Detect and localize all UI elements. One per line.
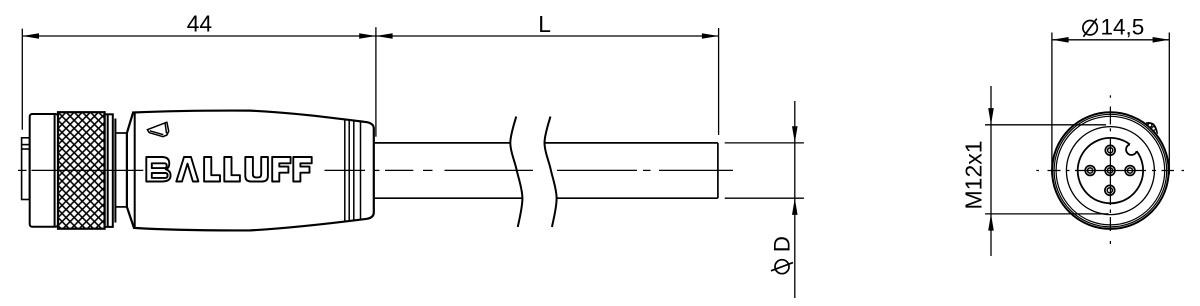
cable break curve 2: [545, 117, 557, 228]
washer line: [114, 119, 116, 223]
svg-text:14,5: 14,5: [1101, 14, 1145, 39]
diameter D extension bottom: [725, 197, 804, 199]
BALLUFF logo: [146, 157, 311, 182]
front view horizontal centerline: [1036, 170, 1184, 172]
label diameter 14,5: [1083, 14, 1144, 39]
body collar seam line: [134, 113, 136, 229]
orientation wedge marker: [147, 122, 168, 137]
body ridge lines: [345, 120, 361, 222]
cable break curve 1: [510, 117, 522, 228]
arrowhead 44 right: [359, 33, 376, 39]
arrowhead D bottom: [792, 198, 798, 215]
front view thread circle: [1066, 127, 1154, 215]
logo letter U: [245, 157, 268, 182]
knurled ring: [58, 112, 105, 229]
arrowhead M12 bottom: [988, 214, 994, 231]
rim bump dot 1: [1148, 123, 1152, 127]
cable bottom edge: [375, 197, 718, 199]
arrowhead L left: [376, 33, 393, 39]
M12x1 dimension line: [990, 86, 992, 256]
front view insert circle with keyway: [1078, 138, 1143, 203]
extension line left of 44: [21, 29, 23, 130]
arrowhead 44 left: [22, 33, 39, 39]
arrowhead 14,5 left: [1052, 37, 1069, 43]
pin 3 bottom: [1105, 185, 1115, 195]
rear ring of nut: [105, 114, 113, 227]
cable top edge: [375, 142, 718, 144]
neck groove: [115, 133, 127, 207]
label diameter D: [769, 236, 794, 274]
svg-text:44: 44: [187, 10, 213, 36]
arrowhead L right: [702, 33, 719, 39]
pin 4 left: [1085, 166, 1095, 176]
dimension line L: [376, 35, 719, 37]
logo letter L 2: [224, 157, 240, 182]
connector body: [127, 111, 374, 231]
extension line 14,5 right: [1168, 33, 1170, 175]
arrowhead D top: [792, 126, 798, 143]
diameter 14,5 dimension line: [1052, 39, 1169, 41]
logo letter B: [146, 157, 170, 182]
dimension line 44: [22, 35, 376, 37]
cable end: [717, 143, 719, 198]
coupling nut thread stub: [22, 138, 30, 200]
logo letter A: [176, 157, 198, 182]
keyway notch: [1126, 144, 1137, 155]
pin 5 center: [1105, 166, 1115, 176]
diameter D extension top: [725, 142, 804, 144]
pin 2 right: [1125, 166, 1135, 176]
extension line 14,5 left: [1051, 33, 1053, 175]
logo letter F 2: [293, 157, 311, 182]
arrowhead M12 top: [988, 108, 994, 125]
extension line shared 44/L: [375, 27, 377, 137]
svg-text:M12x1: M12x1: [960, 140, 986, 209]
front view knurl inner circle: [1054, 114, 1167, 227]
svg-text:D: D: [769, 236, 794, 252]
logo letter L 1: [204, 157, 220, 182]
front view vertical centerline: [1109, 95, 1111, 244]
coupling nut front ring: [30, 114, 58, 227]
front view chamfer circle: [1056, 116, 1165, 225]
M12 extension bottom: [985, 213, 1109, 215]
rim bump dot 2: [1152, 127, 1156, 131]
svg-text:L: L: [538, 11, 551, 37]
logo letter F 1: [272, 157, 290, 182]
pin 1 top: [1105, 145, 1115, 155]
extension line right of L: [718, 28, 720, 135]
centerline side view: [18, 169, 733, 171]
BALLUFF logo mask: [144, 154, 325, 185]
rim bump: [1146, 123, 1157, 134]
front view outer circle: [1052, 112, 1169, 229]
diameter D dimension line: [794, 101, 796, 298]
M12 extension top: [985, 124, 1106, 126]
arrowhead 14,5 right: [1153, 37, 1170, 43]
